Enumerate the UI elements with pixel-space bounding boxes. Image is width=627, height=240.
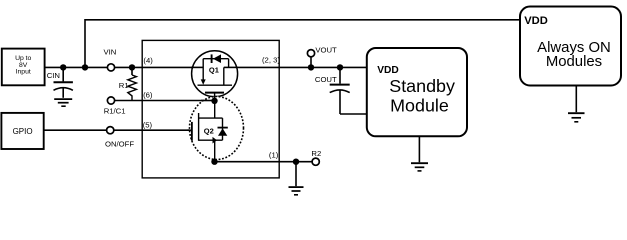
- resistor R1: [119, 67, 137, 100]
- terminal ON/OFF: [107, 127, 114, 134]
- svg-text:(5): (5): [143, 120, 153, 129]
- Q2 body diode cathode bar: [218, 127, 228, 129]
- node R1 junction: [129, 64, 135, 70]
- transistor Q1 (pass FET with body diode): [191, 51, 239, 101]
- svg-text:R1: R1: [119, 81, 129, 90]
- wire ON/OFF gate lead stub: [188, 129, 192, 131]
- svg-text:Q1: Q1: [209, 65, 219, 74]
- terminal VIN: [107, 64, 114, 71]
- Q1 gate lead: [214, 93, 216, 101]
- svg-text:VOUT: VOUT: [315, 46, 337, 55]
- wire VDD top rail from input node to Always ON Modules: [85, 20, 520, 68]
- svg-text:CIN: CIN: [47, 71, 60, 80]
- svg-text:(4): (4): [143, 56, 153, 65]
- Q1 left stub and source arrow: [202, 59, 204, 80]
- Q2 body diode triangle: [218, 128, 227, 135]
- terminal R1/C1: [107, 97, 114, 104]
- wire R1/C1 net to Q1 gate junction: [115, 100, 215, 102]
- Standby Module box: [367, 48, 467, 136]
- Q2 body diode line: [222, 118, 224, 140]
- Q1 gate lead segment over Q2 outline: [214, 96, 216, 101]
- node Q1 gate / pin 6 junction: [211, 98, 217, 104]
- IC U1 box: [142, 40, 279, 178]
- svg-text:VDD: VDD: [377, 65, 399, 76]
- node ground junction on pin 1 net: [293, 159, 299, 165]
- svg-text:GPIO: GPIO: [13, 127, 33, 136]
- wire R1/C1 net segment over Q2 outline: [201, 100, 215, 102]
- svg-text:COUT: COUT: [315, 75, 337, 84]
- transistor Q2 (FET with body diode, dashed outline): [188, 96, 244, 162]
- Q2 bottom contact line with source arrow: [199, 139, 223, 141]
- terminal VOUT: [307, 46, 337, 68]
- Q1 drain contact: [223, 67, 225, 85]
- svg-text:VIN: VIN: [104, 47, 117, 56]
- svg-text:Standby: Standby: [389, 76, 455, 96]
- Q1 drain segment: [224, 66, 239, 68]
- GPIO box: [1, 113, 43, 149]
- svg-text:Input: Input: [16, 69, 31, 76]
- svg-text:Q2: Q2: [204, 127, 214, 136]
- svg-text:(2, 3): (2, 3): [262, 56, 280, 65]
- Q1 gate bar: [205, 92, 224, 94]
- Always ON Modules box: [520, 7, 621, 86]
- Q2 gate bar: [191, 122, 193, 141]
- Q1 body diode top line: [203, 58, 228, 60]
- input source box "Up to 8V Input": [2, 49, 45, 86]
- ground (Standby Module): [411, 136, 428, 171]
- ground (pin 1 net): [289, 162, 304, 195]
- svg-text:R2: R2: [311, 149, 321, 158]
- wire ON/OFF net: GPIO to Q2 gate: [44, 129, 107, 131]
- wire COUT return to Standby Module: [340, 113, 367, 115]
- Q2 top contact line: [199, 117, 223, 119]
- capacitor CIN: [47, 67, 73, 97]
- ground (Always ON Modules): [568, 86, 585, 122]
- node COUT junction: [337, 64, 343, 70]
- node Q1 gate / pin 6 junction dot redrawn: [211, 98, 217, 104]
- capacitor COUT: [315, 67, 350, 114]
- wire pin 1 net to R2: [215, 161, 313, 163]
- svg-text:(6): (6): [143, 91, 153, 100]
- node CIN junction: [60, 64, 66, 70]
- Q2 channel bar: [198, 113, 200, 141]
- svg-text:VDD: VDD: [524, 15, 548, 27]
- Q1 body diode triangle: [213, 54, 221, 63]
- svg-text:Modules: Modules: [546, 54, 602, 70]
- terminal R2: [312, 158, 319, 165]
- Q2 drain lead: [214, 101, 216, 118]
- Q1 source segment: [191, 66, 203, 68]
- node VOUT terminal junction: [308, 64, 314, 70]
- ground (CIN): [54, 99, 72, 106]
- svg-text:Module: Module: [390, 95, 449, 115]
- svg-text:R1/C1: R1/C1: [104, 106, 126, 115]
- Q1 body diode cathode bar: [211, 54, 213, 63]
- Q1 channel bar: [198, 84, 233, 86]
- Q1 right stub to body diode: [228, 59, 230, 68]
- wire VOUT net: Q1 drain to Standby Module: [239, 66, 367, 68]
- node Q2 source / pin 1 junction: [211, 159, 217, 165]
- svg-text:(1): (1): [269, 150, 279, 159]
- Q2 source lead: [214, 140, 216, 162]
- wire VIN net: input box to Q1 source: [44, 66, 107, 68]
- node VDD rail junction: [82, 64, 88, 70]
- svg-text:ON/OFF: ON/OFF: [105, 139, 134, 148]
